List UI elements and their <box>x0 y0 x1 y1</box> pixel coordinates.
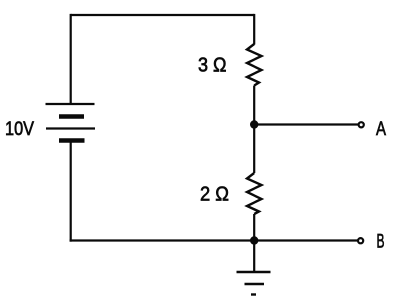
wire right vertical middle <box>253 86 255 174</box>
junction node dot at resistor divider (node A) <box>250 120 258 128</box>
battery V1 10V <box>46 104 96 141</box>
wire right vertical bottom lead <box>253 214 255 242</box>
ground stub wire <box>253 241 255 273</box>
svg-text:2 Ω: 2 Ω <box>200 184 229 206</box>
ground symbol <box>237 272 271 295</box>
svg-text:10V: 10V <box>5 118 34 140</box>
wire left vertical upper (battery top lead) <box>70 14 72 104</box>
wire bottom horizontal <box>70 239 358 241</box>
wire left vertical lower (battery bottom lead) <box>70 141 72 242</box>
svg-text:A: A <box>376 118 386 140</box>
terminal B open circle <box>358 238 363 243</box>
junction node dot at bottom (node B) <box>250 236 258 244</box>
wire right vertical top lead <box>253 14 255 45</box>
wire top horizontal <box>71 14 255 16</box>
resistor R1 3ohm zigzag <box>247 44 262 86</box>
wire node A horizontal to terminal <box>254 123 358 125</box>
svg-text:B: B <box>377 231 385 253</box>
terminal A open circle <box>359 122 364 127</box>
svg-text:3 Ω: 3 Ω <box>198 54 227 76</box>
resistor R2 2ohm zigzag <box>247 173 262 214</box>
